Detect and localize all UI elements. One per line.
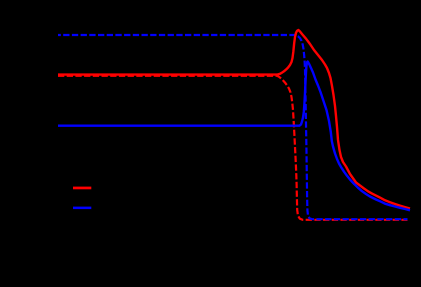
legend blue line sample <box>73 207 91 210</box>
blue solid abundance curve (flat, spike to peak at (307.7,61.7), decay tail) <box>58 62 410 211</box>
red solid abundance curve (flat, spike to peak at (298.5,30), decay tail) <box>58 30 410 209</box>
legend red line sample <box>73 187 91 190</box>
red dashed equilibrium curve (flat at y=75.5, plunge near x=297, bottom asymptote) <box>58 76 408 220</box>
blue dashed equilibrium curve (flat at y=35.3, plunge near x=306, bottom asymptote) <box>58 35 408 219</box>
